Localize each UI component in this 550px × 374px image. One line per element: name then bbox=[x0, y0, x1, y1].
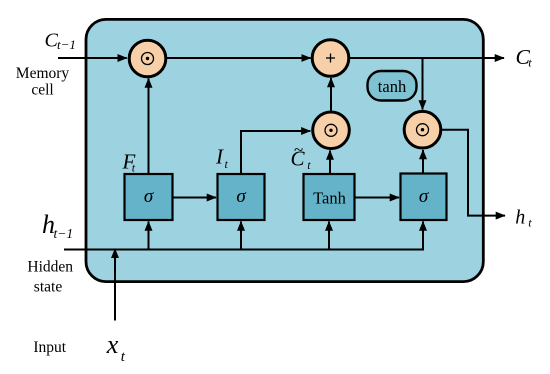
gate sigma3 (output) bbox=[401, 174, 447, 221]
label C(t-1) bbox=[45, 30, 76, 52]
block tanh pill bbox=[368, 71, 417, 101]
svg-text:Input: Input bbox=[33, 339, 66, 356]
wire output-gate-up bbox=[422, 150, 424, 174]
wire tanh-to-sigma3 bbox=[355, 197, 399, 199]
label Hidden state bbox=[27, 259, 73, 296]
svg-text:σ: σ bbox=[419, 186, 429, 207]
svg-text:x: x bbox=[106, 330, 119, 359]
svg-text:~: ~ bbox=[294, 140, 303, 159]
gate sigma2 (input) bbox=[218, 174, 265, 220]
op multiply1 bbox=[129, 40, 166, 77]
svg-text:I: I bbox=[215, 144, 224, 168]
wire memory-in bbox=[58, 57, 127, 59]
wire hidden-out bbox=[441, 130, 505, 216]
svg-text:h: h bbox=[515, 207, 525, 229]
op multiply3 bbox=[404, 111, 441, 148]
wire tanh-drop bbox=[422, 58, 424, 110]
svg-text:tanh: tanh bbox=[378, 77, 407, 96]
svg-text:t−1: t−1 bbox=[54, 226, 74, 241]
svg-text:σ: σ bbox=[236, 186, 246, 207]
wire hidden-branch-1 bbox=[148, 222, 150, 250]
op multiply2 bbox=[313, 112, 350, 149]
wire candidate-up bbox=[329, 151, 331, 175]
wire input-up bbox=[114, 249, 116, 321]
svg-text:t: t bbox=[121, 349, 126, 365]
label Memory cell bbox=[16, 65, 70, 99]
cell body (rounded rectangle) bbox=[86, 19, 483, 281]
svg-text:Memory: Memory bbox=[16, 65, 70, 82]
svg-text:t: t bbox=[528, 216, 532, 230]
label C-tilde t bbox=[291, 140, 312, 172]
svg-text:state: state bbox=[34, 278, 63, 295]
label Ct bbox=[516, 45, 533, 70]
gate sigma1 (forget) bbox=[125, 174, 173, 220]
svg-text:Hidden: Hidden bbox=[27, 259, 73, 276]
svg-text:σ: σ bbox=[144, 186, 154, 207]
wire hidden-in bbox=[64, 222, 423, 250]
svg-text:Tanh: Tanh bbox=[313, 189, 347, 208]
wire hidden-branch-2 bbox=[240, 222, 242, 250]
op add bbox=[312, 40, 349, 77]
wire sigma1-to-sigma2 bbox=[173, 197, 216, 199]
svg-text:t−1: t−1 bbox=[57, 37, 76, 52]
label Ft bbox=[122, 149, 136, 174]
label ht bbox=[515, 207, 532, 230]
svg-text:cell: cell bbox=[31, 82, 53, 99]
wire forget-up bbox=[148, 79, 150, 175]
label xt bbox=[106, 330, 126, 365]
svg-text:t: t bbox=[528, 56, 532, 70]
wire input-gate bbox=[241, 131, 310, 174]
label It bbox=[215, 144, 229, 171]
label h(t-1) bbox=[42, 210, 73, 241]
wire memory-out bbox=[348, 57, 504, 59]
wire multiply2-to-add bbox=[330, 78, 332, 111]
gate Tanh (candidate) bbox=[304, 174, 355, 220]
wire multiply1-to-add bbox=[166, 57, 311, 59]
wire hidden-branch-3 bbox=[328, 222, 330, 250]
